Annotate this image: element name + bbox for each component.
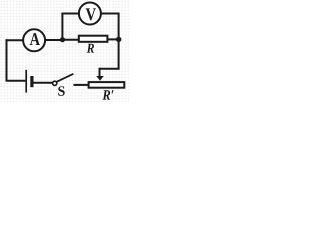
label S: [58, 86, 64, 95]
label A: [30, 33, 40, 45]
wire ammeter to node A: [46, 39, 63, 41]
battery cell short plate: [30, 76, 33, 87]
rheostat R': [89, 82, 125, 88]
voltmeter V1: [79, 3, 101, 25]
wire battery to switch: [33, 82, 53, 84]
label R: [87, 44, 94, 53]
wire right vertical: [118, 13, 120, 69]
wire branch vertical to voltmeter: [61, 14, 63, 40]
switch S blade: [57, 74, 74, 82]
wire bottom left horizontal: [6, 80, 26, 82]
battery cell long plate: [25, 70, 27, 93]
node A junction dot: [60, 37, 65, 42]
wire resistor to node B: [108, 38, 118, 40]
ammeter A1: [23, 29, 45, 51]
wire ammeter left: [6, 39, 23, 41]
wire node A to resistor R: [62, 39, 78, 41]
wire left vertical: [6, 39, 8, 80]
wire top to voltmeter: [61, 13, 78, 15]
resistor R: [79, 36, 108, 42]
wire wiper arm down: [99, 68, 101, 77]
wire switch to rheostat: [73, 84, 88, 86]
switch S contact circle: [53, 81, 57, 85]
label R': [102, 90, 113, 99]
wire wiper horizontal: [100, 68, 120, 70]
arrowhead onto rheostat: [96, 76, 103, 81]
node B junction dot: [116, 37, 121, 42]
wire voltmeter to right corner: [101, 13, 118, 15]
label V: [86, 8, 96, 20]
